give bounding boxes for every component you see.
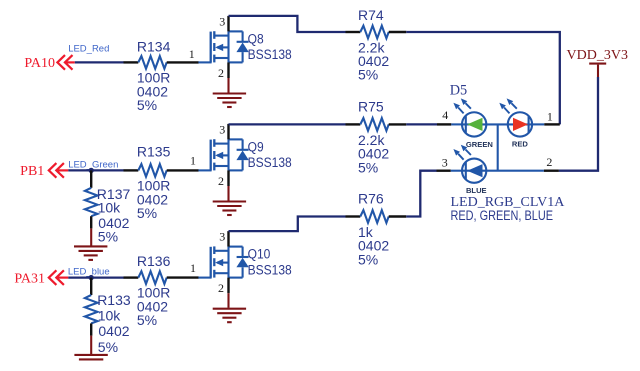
junction node LED_blue bbox=[89, 275, 94, 280]
wire (Q10 drain to R76) bbox=[229, 217, 346, 232]
wire (R75 to LED pin 4) bbox=[406, 123, 437, 125]
designator label R133 bbox=[97, 292, 131, 308]
value label 0402 of R134 bbox=[137, 83, 168, 99]
svg-text:R74: R74 bbox=[358, 7, 384, 23]
wire (pin 3 lead of Q10) bbox=[227, 231, 229, 247]
svg-text:5%: 5% bbox=[137, 97, 157, 113]
value label 5% of R135 bbox=[137, 205, 157, 221]
value label BSS138 of Q8 bbox=[248, 46, 292, 62]
svg-text:10k: 10k bbox=[98, 308, 122, 324]
svg-text:1: 1 bbox=[189, 47, 195, 61]
port PB1 bbox=[20, 163, 68, 179]
svg-text:R136: R136 bbox=[137, 253, 171, 269]
svg-text:BSS138: BSS138 bbox=[248, 46, 292, 62]
pin number 2 of Q10 bbox=[218, 281, 224, 295]
svg-text:Q8: Q8 bbox=[248, 31, 264, 47]
wire (R137 to ground) bbox=[90, 228, 92, 245]
svg-text:PB1: PB1 bbox=[20, 164, 44, 179]
svg-text:5%: 5% bbox=[137, 312, 157, 328]
resistor R137 (pull-down) bbox=[85, 170, 98, 228]
pin number 1 (R134 to Q8 gate) bbox=[189, 47, 195, 61]
svg-text:BSS138: BSS138 bbox=[248, 262, 292, 278]
svg-text:RED: RED bbox=[512, 140, 529, 149]
wire (R74 to LED pin 1, net to VDD rail) bbox=[406, 32, 560, 124]
svg-text:RED, GREEN, BLUE: RED, GREEN, BLUE bbox=[451, 208, 553, 224]
transistor Q9 (Q9 BSS138 N-MOSFET) bbox=[198, 139, 248, 170]
net label LED_blue bbox=[68, 266, 110, 277]
power symbol VDD_3V3 bbox=[589, 64, 606, 77]
svg-text:5%: 5% bbox=[358, 159, 378, 175]
part name label LED_RGB_CLV1A bbox=[451, 195, 566, 210]
wire (pin 3 lead of Q9) bbox=[227, 124, 229, 139]
svg-text:5%: 5% bbox=[98, 339, 118, 355]
value label 0402 of R137 bbox=[98, 215, 129, 231]
svg-text:R76: R76 bbox=[358, 190, 384, 206]
svg-text:3: 3 bbox=[442, 155, 448, 169]
value label 100R of R134 bbox=[137, 70, 170, 86]
wire (pin 2 to VDD_3V3 rail) bbox=[559, 77, 598, 171]
power net label VDD_3V3 bbox=[567, 48, 628, 63]
svg-text:5%: 5% bbox=[98, 228, 118, 244]
ground (below R137) bbox=[74, 246, 107, 260]
resistor R134 bbox=[124, 56, 199, 69]
svg-text:R133: R133 bbox=[97, 292, 131, 308]
designator label R75 bbox=[358, 98, 384, 114]
ground bbox=[213, 94, 246, 108]
wire (PB1 to R135) bbox=[68, 169, 123, 171]
wire (pin 3 lead of D5) bbox=[437, 169, 451, 171]
pin number 2 of Q8 bbox=[218, 66, 224, 80]
junction node LED_Green bbox=[89, 168, 94, 173]
value label 0402 of R136 bbox=[137, 298, 168, 314]
svg-text:D5: D5 bbox=[450, 83, 467, 99]
LED D5 green element bbox=[451, 98, 486, 136]
svg-text:PA10: PA10 bbox=[24, 56, 55, 71]
label BLUE bbox=[466, 186, 487, 195]
label RED bbox=[512, 140, 529, 149]
svg-text:VDD_3V3: VDD_3V3 bbox=[567, 48, 628, 63]
designator label D5 bbox=[450, 83, 467, 99]
value label BSS138 of Q10 bbox=[248, 262, 292, 278]
wire (anode riser, internal) bbox=[497, 124, 499, 170]
value label 0402 of R74 bbox=[358, 53, 389, 69]
LED D5 blue element bbox=[451, 145, 487, 183]
value label 5% of R74 bbox=[358, 67, 378, 83]
svg-text:R134: R134 bbox=[137, 38, 171, 54]
designator label R137 bbox=[97, 186, 131, 202]
wire (Q8 drain to R74) bbox=[229, 16, 346, 32]
value label 1k of R76 bbox=[358, 224, 374, 240]
svg-text:4: 4 bbox=[442, 108, 448, 122]
svg-text:3: 3 bbox=[219, 123, 225, 137]
value label 100R of R135 bbox=[137, 178, 170, 194]
svg-text:1: 1 bbox=[547, 109, 553, 123]
pin number 3 of Q9 bbox=[219, 123, 225, 137]
svg-text:5%: 5% bbox=[358, 67, 378, 83]
pin number 3 of D5 bbox=[442, 155, 448, 169]
svg-text:5%: 5% bbox=[137, 205, 157, 221]
value label 10k of R137 bbox=[98, 200, 122, 216]
wire (source to ground of Q10) bbox=[227, 293, 229, 308]
svg-text:1: 1 bbox=[190, 154, 196, 168]
wire (R133 to ground) bbox=[90, 336, 92, 354]
designator label R136 bbox=[137, 253, 171, 269]
port PA10 bbox=[24, 55, 74, 71]
wire (Q9 drain to R75) bbox=[229, 123, 346, 125]
pin number 1 (R135 to Q9 gate) bbox=[190, 154, 196, 168]
resistor R76 bbox=[346, 210, 407, 223]
svg-text:R75: R75 bbox=[358, 98, 384, 114]
value label 0402 of R135 bbox=[137, 191, 168, 207]
wire (pin 2 lead of Q10) bbox=[227, 278, 229, 294]
svg-text:BLUE: BLUE bbox=[466, 186, 487, 195]
designator label R74 bbox=[358, 7, 384, 23]
pin number 4 of D5 bbox=[442, 108, 448, 122]
transistor Q8 (Q8 BSS138 N-MOSFET) bbox=[198, 31, 248, 62]
svg-text:R135: R135 bbox=[137, 144, 171, 160]
value label 5% of R75 bbox=[358, 159, 378, 175]
designator label R135 bbox=[137, 144, 171, 160]
value label 100R of R136 bbox=[137, 285, 170, 301]
svg-text:2: 2 bbox=[218, 174, 224, 188]
value label 5% of R133 bbox=[98, 339, 118, 355]
value label 5% of R136 bbox=[137, 312, 157, 328]
LED D5 red element bbox=[499, 98, 532, 136]
resistor R133 (pull-down) bbox=[85, 278, 98, 336]
pin number 3 of Q10 bbox=[219, 230, 225, 244]
designator label Q9 bbox=[248, 139, 264, 155]
value label 2.2k of R74 bbox=[358, 39, 385, 55]
net label LED_Red bbox=[68, 44, 109, 55]
wire (pin 3 lead of Q8) bbox=[227, 16, 229, 32]
transistor Q10 (Q10 BSS138 N-MOSFET) bbox=[198, 246, 248, 277]
svg-text:3: 3 bbox=[219, 230, 225, 244]
wire (PA10 to R134) bbox=[75, 61, 124, 63]
wire (PA31 to R136) bbox=[68, 276, 123, 278]
wire (red cathode to pin 1) bbox=[532, 123, 544, 125]
svg-text:2: 2 bbox=[218, 281, 224, 295]
label GREEN bbox=[466, 140, 493, 149]
designator label R134 bbox=[137, 38, 171, 54]
svg-text:10k: 10k bbox=[98, 200, 122, 216]
pin number 1 of D5 bbox=[547, 109, 553, 123]
designator label R76 bbox=[358, 190, 384, 206]
svg-text:3: 3 bbox=[219, 15, 225, 29]
ground bbox=[213, 309, 246, 323]
svg-text:5%: 5% bbox=[358, 251, 378, 267]
value label 10k of R133 bbox=[98, 308, 122, 324]
svg-text:2: 2 bbox=[218, 66, 224, 80]
value label 0402 of R133 bbox=[98, 323, 129, 339]
pin number 3 of Q8 bbox=[219, 15, 225, 29]
port PA31 bbox=[14, 270, 68, 286]
value label BSS138 of Q9 bbox=[248, 154, 292, 170]
svg-text:GREEN: GREEN bbox=[466, 140, 493, 149]
svg-text:PA31: PA31 bbox=[14, 271, 45, 286]
wire (pin 1 lead of D5) bbox=[544, 123, 560, 125]
net label LED_Green bbox=[68, 159, 118, 170]
wire (source to ground of Q8) bbox=[227, 78, 229, 93]
svg-text:2: 2 bbox=[546, 155, 552, 169]
resistor R74 bbox=[346, 26, 407, 39]
svg-text:0402: 0402 bbox=[98, 323, 129, 339]
value label 0402 of R76 bbox=[358, 238, 389, 254]
pin number 2 of Q9 bbox=[218, 174, 224, 188]
resistor R75 bbox=[346, 118, 407, 131]
value label 5% of R137 bbox=[98, 228, 118, 244]
wire (pin 2 lead of Q8) bbox=[227, 62, 229, 78]
svg-text:Q9: Q9 bbox=[248, 139, 264, 155]
svg-text:Q10: Q10 bbox=[248, 246, 271, 262]
wire (pin 2 lead of D5) bbox=[544, 169, 559, 171]
value label 5% of R134 bbox=[137, 97, 157, 113]
designator label Q10 bbox=[248, 246, 271, 262]
value label 5% of R76 bbox=[358, 251, 378, 267]
wire (R76 to LED pin 3) bbox=[406, 171, 436, 217]
ground bbox=[213, 202, 246, 216]
pin number 1 (R136 to Q10 gate) bbox=[190, 261, 196, 275]
resistor R135 bbox=[124, 164, 199, 177]
value label 2.2k of R75 bbox=[358, 132, 385, 148]
svg-text:BSS138: BSS138 bbox=[248, 154, 292, 170]
wire (source to ground of Q9) bbox=[227, 186, 229, 201]
comment label RED, GREEN, BLUE bbox=[451, 208, 553, 224]
wire (pin 4 lead of D5) bbox=[437, 123, 451, 125]
wire (blue anode to pin 2, internal) bbox=[486, 170, 544, 172]
ground (below R133, clipped) bbox=[74, 355, 107, 360]
svg-text:LED_Red: LED_Red bbox=[68, 44, 109, 55]
svg-text:LED_blue: LED_blue bbox=[68, 266, 110, 277]
value label 0402 of R75 bbox=[358, 146, 389, 162]
designator label Q8 bbox=[248, 31, 264, 47]
wire (green anode to red anode, internal) bbox=[486, 123, 508, 125]
svg-text:1: 1 bbox=[190, 261, 196, 275]
wire (pin 2 lead of Q9) bbox=[227, 170, 229, 186]
resistor R136 bbox=[124, 271, 199, 284]
pin number 2 of D5 bbox=[546, 155, 552, 169]
